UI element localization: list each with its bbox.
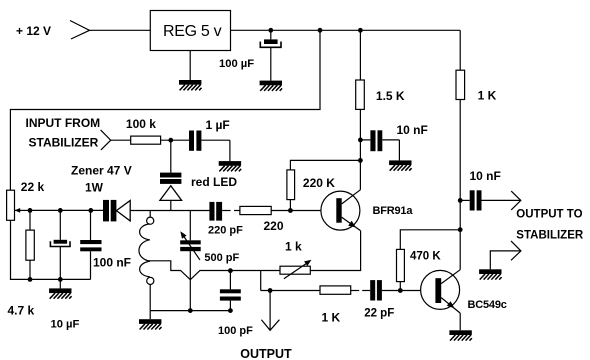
connector ground chevron [490, 241, 521, 269]
junction 100pF bottom [228, 308, 233, 313]
junction base node [288, 208, 293, 213]
ground 10nF [389, 160, 412, 170]
wire pot bottom rail [11, 220, 91, 279]
wire +12V to regulator [90, 29, 151, 31]
wire 22pF segment [362, 290, 370, 292]
wire tap tee down [260, 271, 262, 291]
capacitor 10nF collector [360, 130, 399, 160]
wire zener to 220pF [130, 210, 209, 212]
resistor 4.7k [26, 210, 34, 279]
wire 1.5K to collector [359, 109, 361, 189]
svg-text:STABILIZER: STABILIZER [516, 229, 584, 241]
junction 470K node [458, 227, 463, 232]
svg-text:10 µF: 10 µF [51, 318, 80, 330]
wire osc main [30, 209, 103, 211]
wire BC549 emitter ground [459, 313, 461, 330]
wire 220K to base [289, 200, 291, 211]
wire trimmer to emitter [310, 231, 360, 271]
junction 100nF node [88, 208, 93, 213]
ground BC549 emitter [449, 330, 472, 340]
connector input chevron [101, 130, 111, 150]
svg-text:100 nF: 100 nF [93, 256, 131, 270]
wire 5V rail [231, 29, 461, 31]
svg-text:INPUT FROM: INPUT FROM [26, 116, 101, 130]
svg-text:1.5 K: 1.5 K [376, 89, 405, 103]
connector +12V input chevron [70, 21, 90, 40]
capacitor 10nF output [460, 190, 521, 210]
svg-text:220 K: 220 K [303, 176, 335, 190]
junction 4.7k bottom [28, 277, 33, 282]
resistor 220K [287, 170, 295, 200]
svg-text:BC549c: BC549c [468, 299, 507, 311]
resistor 1K bottom [320, 286, 351, 294]
resistor 470K [397, 230, 461, 291]
svg-text:22 pF: 22 pF [364, 307, 394, 319]
wire left supply rail [10, 30, 320, 190]
wire 1K to BC549 collector [459, 100, 461, 270]
junction 220K node [358, 158, 363, 163]
svg-text:10 nF: 10 nF [397, 123, 428, 137]
wire input to 100k [111, 139, 131, 141]
wire rail to 1.5K [359, 30, 361, 80]
wire 1K to 22pF [351, 290, 360, 292]
wire gap segment [234, 210, 240, 212]
junction 100uF node [268, 28, 273, 33]
potentiometer 1k trimmer [280, 260, 312, 279]
capacitor 22pF [370, 280, 435, 300]
svg-text:Zener 47 V: Zener 47 V [71, 164, 132, 178]
wire 220K feedback [290, 160, 360, 170]
svg-text:1 k: 1 k [285, 239, 302, 253]
resistor 1.5K [356, 80, 365, 109]
junction 100pF top [228, 268, 233, 273]
svg-text:BFR91a: BFR91a [373, 205, 414, 217]
wire coil tap [149, 261, 280, 280]
svg-text:100 k: 100 k [126, 117, 156, 131]
wire regulator ground [189, 51, 191, 81]
svg-text:500 pF: 500 pF [204, 252, 239, 264]
svg-text:+ 12 V: + 12 V [16, 24, 51, 38]
svg-text:4.7 k: 4.7 k [8, 304, 35, 318]
wire output row [261, 290, 320, 292]
wire 220 to base [271, 210, 336, 212]
ground regulator [179, 80, 202, 90]
junction output node [268, 288, 273, 293]
junction left rail node [318, 28, 323, 33]
svg-text:OUTPUT TO: OUTPUT TO [516, 208, 582, 220]
diode LED red [160, 140, 182, 210]
transistor Q1 BFR91a [321, 190, 361, 231]
svg-text:REG 5 v: REG 5 v [163, 23, 222, 40]
ground chevron [479, 269, 502, 279]
svg-text:100 µF: 100 µF [219, 58, 254, 70]
capacitor 1uF [189, 131, 230, 162]
svg-text:red LED: red LED [191, 175, 237, 189]
connector output chevron [511, 191, 521, 210]
junction LED node [168, 138, 173, 143]
capacitor variable 500pF [180, 211, 201, 311]
transistor Q2 BC549c [421, 270, 461, 313]
wire oscillator bottom rail [150, 310, 230, 312]
svg-text:470 K: 470 K [410, 251, 441, 263]
wire rail corner to 1K [459, 30, 461, 70]
ground 100uF [260, 81, 283, 91]
ground 1uF [219, 161, 242, 171]
regulator U1 REG 5v [150, 11, 230, 51]
capacitor 100pF [220, 271, 241, 311]
svg-text:22 k: 22 k [21, 180, 45, 194]
svg-text:220 pF: 220 pF [208, 225, 243, 237]
diode zener 47V [103, 200, 130, 222]
resistor 220 [240, 206, 271, 214]
junction 10nF node [358, 138, 363, 143]
capacitor 10uF [50, 210, 70, 279]
svg-text:STABILIZER: STABILIZER [29, 135, 99, 149]
wire 220pF to 220 [222, 210, 231, 212]
junction 4.7k node [28, 208, 33, 213]
junction 470K bottom node [398, 288, 403, 293]
wire output arrow [261, 291, 279, 331]
svg-text:OUTPUT: OUTPUT [240, 347, 292, 360]
capacitor C1 100uF [260, 30, 281, 80]
svg-text:10 nF: 10 nF [470, 169, 501, 183]
wire 100k to 1uF [161, 139, 189, 141]
svg-text:1W: 1W [85, 180, 104, 194]
resistor 100k [131, 136, 161, 144]
ground left rail [49, 288, 72, 298]
svg-text:1 K: 1 K [478, 89, 497, 103]
wire ground stub left [59, 279, 61, 288]
svg-text:220: 220 [264, 219, 284, 233]
potentiometer 22k [7, 190, 30, 220]
junction 10uF node [58, 208, 63, 213]
inductor L1 [139, 211, 154, 320]
junction 1.5K rail node [358, 28, 363, 33]
junction 10uF bottom [58, 277, 63, 282]
svg-text:1 K: 1 K [322, 310, 341, 324]
junction output cap node [458, 198, 463, 203]
svg-text:100 pF: 100 pF [218, 325, 253, 337]
junction 500pF bottom [188, 308, 193, 313]
svg-text:1 µF: 1 µF [206, 118, 230, 132]
resistor 1K top right [456, 70, 465, 99]
capacitor 100nF [80, 210, 101, 279]
ground inductor [139, 319, 162, 329]
capacitor 220pF [209, 202, 222, 221]
